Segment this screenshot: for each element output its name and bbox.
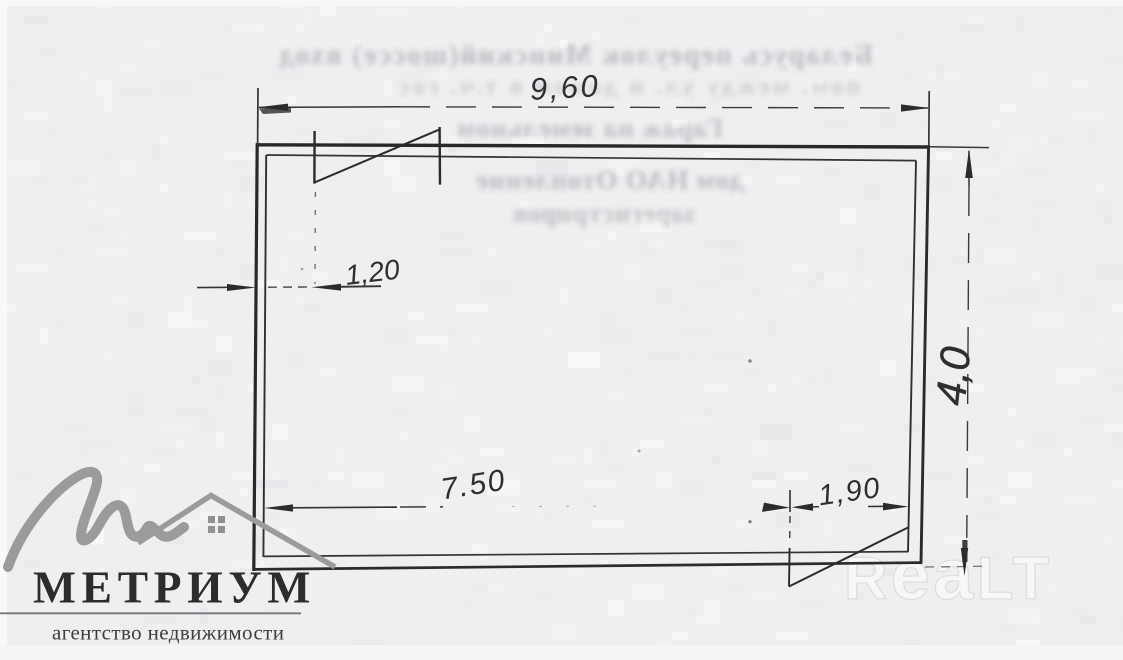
wall bottom inner (263, 552, 908, 557)
dimension 1,90 left arrow blob pointing right (762, 503, 790, 512)
dimension 9,60 line solid part (259, 106, 400, 109)
dimension 4,0 bottom arrowhead (961, 548, 968, 576)
bleed-through mirrored stamp text line 2 (299, 73, 861, 101)
dimension 7.50 line solid (291, 506, 397, 509)
bleed-through mirrored stamp text line 1 (281, 40, 873, 72)
dimension 1,20 inner dashes (268, 286, 309, 288)
dimension 4,0 line dashed (967, 186, 969, 538)
dimension 9,60 left arrowhead (258, 104, 288, 111)
wall top outer (256, 145, 930, 147)
logo house roof (138, 496, 335, 568)
door jamb line (788, 548, 791, 587)
logo house window panes (208, 516, 225, 533)
dimension 4,0 top arrowhead (965, 149, 973, 178)
dimension 4,0 line top solid (968, 151, 970, 186)
logo swoosh m (8, 472, 184, 567)
dimension 4,0 bottom arrow smudge (962, 540, 967, 562)
dimension 1,20 dashed projection line (314, 192, 316, 284)
dimension 1,20 arrowhead pointing left (312, 284, 341, 291)
dimension 9,60 right arrowhead (901, 104, 930, 111)
dimension 9,60 line dashed part (400, 107, 928, 108)
svg-text:МЕТРИУМ: МЕТРИУМ (33, 562, 316, 613)
dimension 1,90 arrowhead pointing left at tick (792, 503, 813, 510)
dimension 1,20 outside tail line (197, 286, 232, 288)
door jamb tick dashes (789, 516, 791, 546)
logo rule line (0, 612, 301, 614)
speck left dim (301, 268, 304, 271)
dimension 9,60 left extension line (257, 88, 259, 145)
dimension 9,60 left arrow smudge (259, 107, 291, 115)
dimension 7.50 faint dashes (512, 505, 620, 508)
dimension 1,90 right arrowhead pointing right (883, 503, 909, 511)
door jamb tick solid top (789, 490, 791, 512)
dimension 7.50 arrowhead pointing left (264, 504, 293, 511)
dimension 1,20 outside arrowhead pointing right (227, 284, 256, 291)
window symbol right jamb (438, 127, 441, 185)
speck mid room 2 (638, 450, 641, 453)
wall bottom outer (253, 563, 922, 570)
window symbol left jamb (313, 131, 316, 184)
window symbol diagonal (315, 129, 440, 182)
wall right outer (921, 145, 929, 563)
dimension 1,90 right line (868, 505, 889, 507)
speck mid room 1 (748, 359, 752, 363)
door swing diagonal (789, 528, 908, 587)
bleed-through mirrored stamp text line 3 (377, 113, 723, 144)
wall left inner (263, 155, 266, 557)
dimension 1,20 tail line (339, 285, 381, 288)
dimension 4,0 bottom extension dashes (925, 565, 988, 568)
speck near door (748, 520, 751, 523)
wall right inner (908, 161, 916, 553)
bleed-through mirrored stamp text line 5 (420, 199, 696, 229)
wall left outer (254, 143, 257, 571)
dimension 9,60 right extension line (928, 91, 930, 146)
dimension 1,90 mid tail (811, 506, 819, 508)
dimension 7.50 line dash (400, 506, 443, 508)
svg-text:агентство недвижимости: агентство недвижимости (52, 621, 284, 645)
bleed-through mirrored stamp text line 4 (406, 165, 744, 196)
wall top inner (267, 155, 917, 161)
wall top extension right (930, 146, 989, 149)
